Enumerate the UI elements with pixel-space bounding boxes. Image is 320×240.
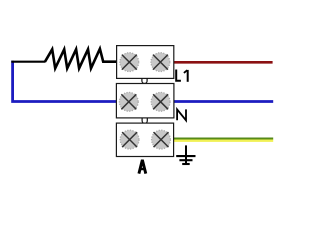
lamp 1 in block L1 (circled X) <box>120 53 139 72</box>
ground symbol bar 2 <box>179 159 192 161</box>
label N <box>177 109 186 120</box>
wire: phase out (dark red) from block L1 to right edge <box>174 61 273 64</box>
wire: neutral (blue) from corner down and right to terminal block N <box>13 61 117 102</box>
ground symbol bar 3 <box>182 163 190 165</box>
terminal block L1 (box) <box>117 46 174 79</box>
connector link between block L1 and block N <box>142 78 147 83</box>
ground symbol stem <box>185 145 187 163</box>
lamp 2 in block L1 (circled X) <box>151 53 170 72</box>
lamp 1 in block N (circled X) <box>119 92 138 111</box>
wire: neutral out (blue) from block N to right edge <box>174 100 273 103</box>
ground symbol bar 1 <box>176 155 195 157</box>
label A (bold) <box>139 160 146 174</box>
connector link between block N and block A <box>142 118 147 123</box>
terminal block N (box) <box>116 84 173 118</box>
wire: phase (black) from corner to resistor <box>11 61 45 63</box>
label L1 (letter L) <box>176 70 181 81</box>
label L1 (digit 1) <box>184 70 188 82</box>
lamp 2 in block N (circled X) <box>151 92 170 111</box>
wire: earth yellow band <box>174 140 273 142</box>
wire: earth (green-yellow) from block A to right edge, green band <box>174 138 273 140</box>
lamp 2 in block A (circled X) <box>152 130 171 149</box>
lamp 1 in block A (circled X) <box>120 130 139 149</box>
resistor R (zigzag) <box>45 49 117 69</box>
terminal block A (box) <box>116 123 173 156</box>
